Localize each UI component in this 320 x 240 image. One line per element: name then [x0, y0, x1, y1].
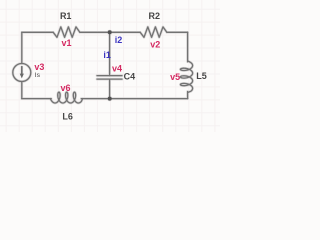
wire bottom-middle	[81, 98, 187, 100]
svg-text:R2: R2	[149, 11, 161, 21]
svg-text:L6: L6	[62, 111, 73, 121]
svg-text:C4: C4	[124, 71, 136, 81]
wire bottom-left	[22, 98, 51, 100]
wire top-middle	[80, 31, 140, 33]
current source Is circle	[13, 64, 31, 82]
wire left rail lower	[21, 82, 23, 99]
svg-text:v3: v3	[34, 62, 44, 72]
svg-text:Is: Is	[35, 72, 41, 79]
svg-text:v5: v5	[170, 72, 180, 82]
svg-text:i2: i2	[115, 35, 123, 45]
svg-text:L5: L5	[196, 71, 207, 81]
svg-text:i1: i1	[103, 50, 111, 60]
wire middle branch upper	[109, 32, 111, 75]
current source arrow	[21, 67, 23, 75]
svg-text:v4: v4	[112, 63, 122, 73]
inductor L6	[50, 92, 82, 103]
wire left rail upper	[21, 32, 23, 63]
svg-text:R1: R1	[60, 11, 72, 21]
resistor R2	[140, 27, 167, 37]
junction node top	[108, 30, 112, 34]
svg-text:v1: v1	[61, 38, 71, 48]
wire top-left	[22, 31, 53, 33]
wire top-right	[167, 31, 188, 33]
svg-text:v2: v2	[150, 39, 160, 49]
junction node bottom	[108, 97, 112, 101]
resistor R1	[53, 27, 80, 37]
wire right rail upper	[187, 32, 189, 62]
capacitor C4 plates	[97, 76, 122, 80]
svg-text:v6: v6	[60, 83, 70, 93]
inductor L5	[180, 61, 192, 93]
wire right rail lower	[187, 92, 189, 99]
wire middle branch lower	[109, 79, 111, 98]
